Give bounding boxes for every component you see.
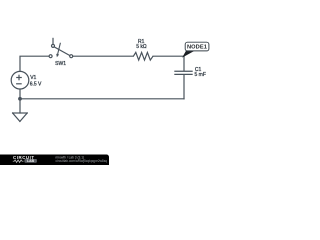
wire ground stem: [19, 99, 21, 113]
junction dot at V1 bottom node: [18, 97, 22, 101]
wire node to C1 top plate: [183, 56, 185, 71]
wire C1 bottom plate to bottom rail: [183, 75, 185, 99]
svg-text:NODE1: NODE1: [187, 45, 207, 51]
ground: [13, 113, 28, 121]
svg-text:5 mF: 5 mF: [195, 72, 206, 78]
svg-text:LAB: LAB: [27, 159, 35, 163]
wire bottom rail: [20, 98, 184, 100]
wire switch top stub: [52, 38, 54, 44]
resistor R1: [133, 52, 153, 60]
switch SW1: [49, 43, 73, 57]
capacitor C1: [174, 71, 192, 74]
wire from R1 to node NODE1: [153, 55, 184, 57]
voltage source V1: [11, 71, 29, 89]
watermark CircuitLab: [0, 155, 109, 166]
wire from V1 top to switch left terminal: [20, 56, 49, 71]
svg-text:6.5 V: 6.5 V: [30, 82, 42, 88]
wire from switch right terminal to R1: [73, 55, 134, 57]
svg-text:V1: V1: [30, 75, 36, 81]
node NODE1 callout: [183, 42, 209, 56]
wire V1 bottom to junction: [19, 89, 21, 99]
svg-text:circuitlab.com/c/f5wj5cqkpqpe2: circuitlab.com/c/f5wj5cqkpqpe2w8sq: [56, 159, 108, 163]
svg-text:SW1: SW1: [55, 61, 66, 67]
svg-text:5 kΩ: 5 kΩ: [136, 44, 147, 50]
